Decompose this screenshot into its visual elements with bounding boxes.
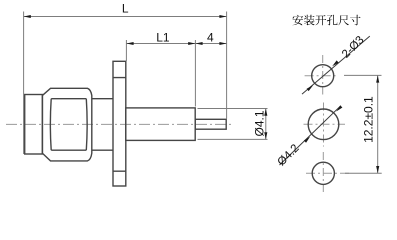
svg-text:4: 4 [207,31,214,45]
svg-text:Ø4.1: Ø4.1 [253,110,267,136]
svg-text:12.2±0.1: 12.2±0.1 [361,96,375,143]
svg-text:Ø4.2: Ø4.2 [276,142,302,168]
svg-text:L1: L1 [156,30,170,44]
svg-text:2-Ø3: 2-Ø3 [340,34,367,61]
svg-text:L: L [122,2,129,16]
